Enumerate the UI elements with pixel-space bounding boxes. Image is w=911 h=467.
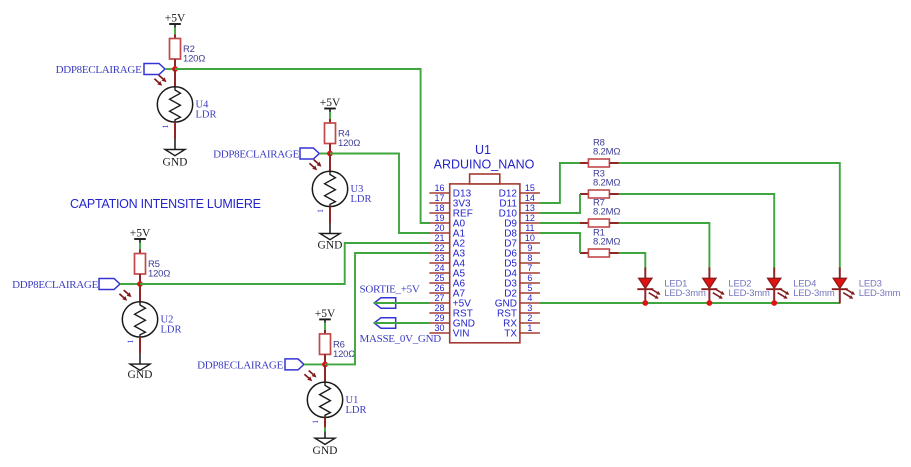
resistor R8 8.2M&#937; — [580, 138, 620, 168]
svg-text:1: 1 — [316, 209, 325, 213]
svg-text:4: 4 — [527, 293, 532, 303]
svg-text:+5V: +5V — [315, 308, 336, 320]
junction node (A) — [172, 66, 178, 72]
svg-text:3: 3 — [527, 303, 532, 313]
pin 14 D11 — [499, 193, 540, 209]
svg-text:20: 20 — [434, 223, 444, 233]
svg-text:8.2MΩ: 8.2MΩ — [593, 207, 620, 218]
svg-text:22: 22 — [434, 243, 444, 253]
svg-text:6: 6 — [527, 273, 532, 283]
pin 16 D13 — [429, 183, 471, 199]
wire flag to junction (A) — [165, 68, 175, 70]
svg-text:17: 17 — [434, 193, 444, 203]
net label DDP8ECLAIRAGE (D) — [197, 359, 304, 372]
svg-text:16: 16 — [434, 183, 444, 193]
net label DDP8ECLAIRAGE (B) — [213, 148, 319, 161]
resistor R6 120&#937; — [320, 330, 356, 365]
photoresistor U3 LDR — [312, 154, 371, 224]
LED LED2 LED-3mm — [701, 268, 770, 304]
svg-text:15: 15 — [525, 183, 535, 193]
svg-text:LED-3mm: LED-3mm — [664, 288, 706, 299]
svg-text:MASSE_0V_GND: MASSE_0V_GND — [360, 333, 442, 345]
svg-text:LDR: LDR — [196, 110, 217, 121]
svg-text:25: 25 — [434, 273, 444, 283]
svg-text:+5V: +5V — [130, 228, 151, 240]
svg-text:13: 13 — [525, 203, 535, 213]
svg-text:VIN: VIN — [453, 329, 470, 340]
light arrows into LDR U3 — [314, 160, 322, 167]
photoresistor U1 LDR — [307, 364, 366, 427]
resistor R1 8.2M&#937; — [580, 228, 620, 258]
pin 2 RX — [503, 313, 540, 329]
wire +5V to R5 — [139, 243, 141, 250]
svg-text:8.2MΩ: 8.2MΩ — [593, 237, 620, 248]
svg-text:1: 1 — [527, 323, 532, 333]
svg-text:8.2MΩ: 8.2MΩ — [593, 178, 620, 189]
junction node (D) — [322, 362, 328, 368]
pin 25 A6 — [429, 273, 465, 289]
wire LDR to GND (A) — [174, 139, 176, 150]
light arrows out of LED3 — [845, 289, 855, 295]
svg-text:18: 18 — [434, 203, 444, 213]
svg-text:8: 8 — [527, 253, 532, 263]
svg-text:14: 14 — [525, 193, 535, 203]
wire net U3 to A1 — [330, 154, 430, 234]
svg-text:DDP8ECLAIRAGE: DDP8ECLAIRAGE — [197, 359, 284, 371]
svg-text:TX: TX — [504, 329, 517, 340]
pin 13 D10 — [499, 203, 540, 219]
pin 29 GND — [429, 313, 475, 329]
power flag +5V (A) — [165, 13, 186, 28]
resistor R5 120&#937; — [135, 250, 171, 285]
svg-text:2: 2 — [527, 313, 532, 323]
svg-text:120Ω: 120Ω — [183, 54, 205, 65]
svg-text:11: 11 — [525, 223, 534, 233]
resistor R7 8.2M&#937; — [580, 198, 620, 228]
pin 8 D5 — [504, 253, 540, 269]
pin 7 D4 — [504, 263, 540, 279]
pin 21 A2 — [429, 233, 465, 249]
svg-text:120Ω: 120Ω — [338, 138, 360, 149]
pin 20 A1 — [429, 223, 465, 239]
svg-text:GND: GND — [163, 156, 188, 168]
wire LDR to GND (B) — [329, 223, 331, 234]
power flag +5V (C) — [130, 228, 151, 243]
svg-text:21: 21 — [434, 233, 444, 243]
pin 18 REF — [429, 203, 472, 219]
wire net DDP8ECLAIRAGE U4 to A0 — [175, 69, 430, 223]
wire R8 to LED3 — [619, 163, 840, 269]
LED LED3 LED-3mm — [832, 268, 901, 304]
svg-text:+5V: +5V — [165, 13, 186, 25]
pin 27 +5V — [429, 293, 471, 309]
pin 30 VIN — [429, 323, 469, 339]
wire LDR to GND (C) — [139, 354, 141, 365]
svg-text:LDR: LDR — [351, 194, 372, 205]
svg-text:ARDUINO_NANO: ARDUINO_NANO — [434, 158, 535, 172]
wire D9 to R7 — [540, 222, 580, 224]
junction node LED4 cathode — [771, 300, 777, 306]
wire flag to junction (C) — [120, 283, 140, 285]
junction node (B) — [327, 151, 333, 157]
ground symbol GND (D) — [313, 438, 338, 457]
pin 15 D12 — [499, 183, 540, 199]
junction node LED2 cathode — [707, 300, 713, 306]
svg-text:1: 1 — [126, 340, 135, 344]
wire +5V to R6 — [324, 323, 326, 330]
net label DDP8ECLAIRAGE (C) — [12, 279, 120, 292]
pin 6 D3 — [504, 273, 540, 289]
net label SORTIE_+5V — [360, 284, 420, 309]
svg-text:DDP8ECLAIRAGE: DDP8ECLAIRAGE — [12, 279, 99, 291]
microcontroller U1 ARDUINO_NANO body — [450, 174, 520, 343]
pin 1 TX — [504, 323, 540, 339]
wire MASSE_0V_GND to pin 29 — [374, 322, 430, 324]
wire net U1 to A3 — [325, 253, 430, 364]
svg-text:1: 1 — [311, 420, 320, 424]
svg-text:23: 23 — [434, 253, 444, 263]
ground symbol GND (B) — [318, 234, 343, 252]
light arrows out of LED2 — [715, 289, 725, 295]
pin 11 D8 — [504, 223, 540, 239]
svg-text:9: 9 — [527, 243, 532, 253]
svg-text:10: 10 — [525, 233, 535, 243]
svg-text:LED-3mm: LED-3mm — [793, 288, 835, 299]
wire flag to junction (D) — [304, 363, 325, 365]
svg-text:GND: GND — [318, 240, 343, 252]
light arrows out of LED1 — [651, 289, 661, 295]
svg-text:+5V: +5V — [320, 97, 341, 109]
power flag +5V (D) — [315, 308, 336, 323]
pin 4 GND — [495, 293, 540, 309]
wire D8 to R1 — [540, 233, 580, 253]
svg-text:CAPTATION INTENSITE LUMIERE: CAPTATION INTENSITE LUMIERE — [70, 197, 261, 211]
svg-text:120Ω: 120Ω — [148, 269, 170, 280]
wire flag to junction (B) — [319, 153, 330, 155]
pin 28 RST — [429, 303, 472, 319]
pin 17 3V3 — [429, 193, 471, 209]
svg-text:29: 29 — [434, 313, 444, 323]
resistor R4 120&#937; — [325, 119, 361, 154]
photoresistor U4 LDR — [157, 69, 216, 139]
svg-text:24: 24 — [434, 263, 444, 273]
svg-text:26: 26 — [434, 283, 444, 293]
LED LED4 LED-3mm — [766, 268, 835, 304]
svg-text:LDR: LDR — [161, 325, 182, 336]
svg-text:SORTIE_+5V: SORTIE_+5V — [360, 284, 420, 296]
svg-text:7: 7 — [527, 263, 532, 273]
svg-text:30: 30 — [434, 323, 444, 333]
junction node (C) — [137, 281, 143, 287]
resistor R2 120&#937; — [170, 35, 206, 70]
svg-text:120Ω: 120Ω — [333, 349, 355, 360]
svg-text:DDP8ECLAIRAGE: DDP8ECLAIRAGE — [56, 64, 143, 76]
wire +5V to R2 — [174, 28, 176, 35]
pin 5 D2 — [504, 283, 540, 299]
svg-text:GND: GND — [128, 369, 153, 381]
net label MASSE_0V_GND — [360, 318, 442, 345]
ground symbol GND (C) — [128, 364, 153, 381]
wire LDR to GND (D) — [324, 428, 326, 433]
light arrows out of LED4 — [779, 289, 789, 295]
svg-text:U1: U1 — [475, 143, 491, 157]
svg-text:LDR: LDR — [346, 405, 367, 416]
resistor R3 8.2M&#937; — [580, 169, 620, 199]
ground symbol GND (A) — [163, 150, 188, 169]
light arrows into LDR U1 — [309, 371, 317, 378]
svg-text:LED-3mm: LED-3mm — [859, 288, 901, 299]
svg-text:19: 19 — [434, 213, 444, 223]
svg-text:1: 1 — [161, 125, 170, 129]
pin 23 A4 — [429, 253, 465, 269]
wire SORTIE_+5V to pin 27 — [374, 302, 430, 304]
pin 22 A3 — [429, 243, 465, 259]
pin 3 RST — [497, 303, 540, 319]
wire D10 to R3 — [540, 194, 580, 213]
net label DDP8ECLAIRAGE (A) — [56, 64, 165, 77]
svg-text:GND: GND — [313, 445, 338, 457]
wire GND bus pin 4 to LEDs — [540, 302, 840, 304]
svg-text:27: 27 — [434, 293, 444, 303]
svg-text:5: 5 — [527, 283, 532, 293]
svg-text:8.2MΩ: 8.2MΩ — [593, 147, 620, 158]
LED LED1 LED-3mm — [637, 268, 706, 304]
wire +5V to R4 — [329, 112, 331, 119]
wire D11 to R8 — [540, 163, 580, 203]
svg-text:LED-3mm: LED-3mm — [728, 288, 770, 299]
pin 12 D9 — [504, 213, 540, 229]
wire R7 to LED2 — [619, 223, 710, 269]
junction node LED1 cathode — [642, 300, 648, 306]
svg-text:12: 12 — [525, 213, 535, 223]
wire R3 to LED4 — [619, 194, 774, 269]
svg-text:28: 28 — [434, 303, 444, 313]
wire R1 to LED1 — [619, 253, 645, 269]
svg-text:DDP8ECLAIRAGE: DDP8ECLAIRAGE — [213, 149, 300, 161]
pin 9 D6 — [504, 243, 540, 259]
pin 10 D7 — [504, 233, 540, 249]
light arrows into LDR U4 — [159, 75, 167, 82]
wire net U2 to A2 — [140, 243, 430, 284]
pin 26 A7 — [429, 283, 465, 299]
power flag +5V (B) — [320, 97, 341, 112]
photoresistor U2 LDR — [122, 284, 181, 354]
light arrows into LDR U2 — [124, 290, 132, 297]
pin 24 A5 — [429, 263, 465, 279]
pin 19 A0 — [429, 213, 465, 229]
